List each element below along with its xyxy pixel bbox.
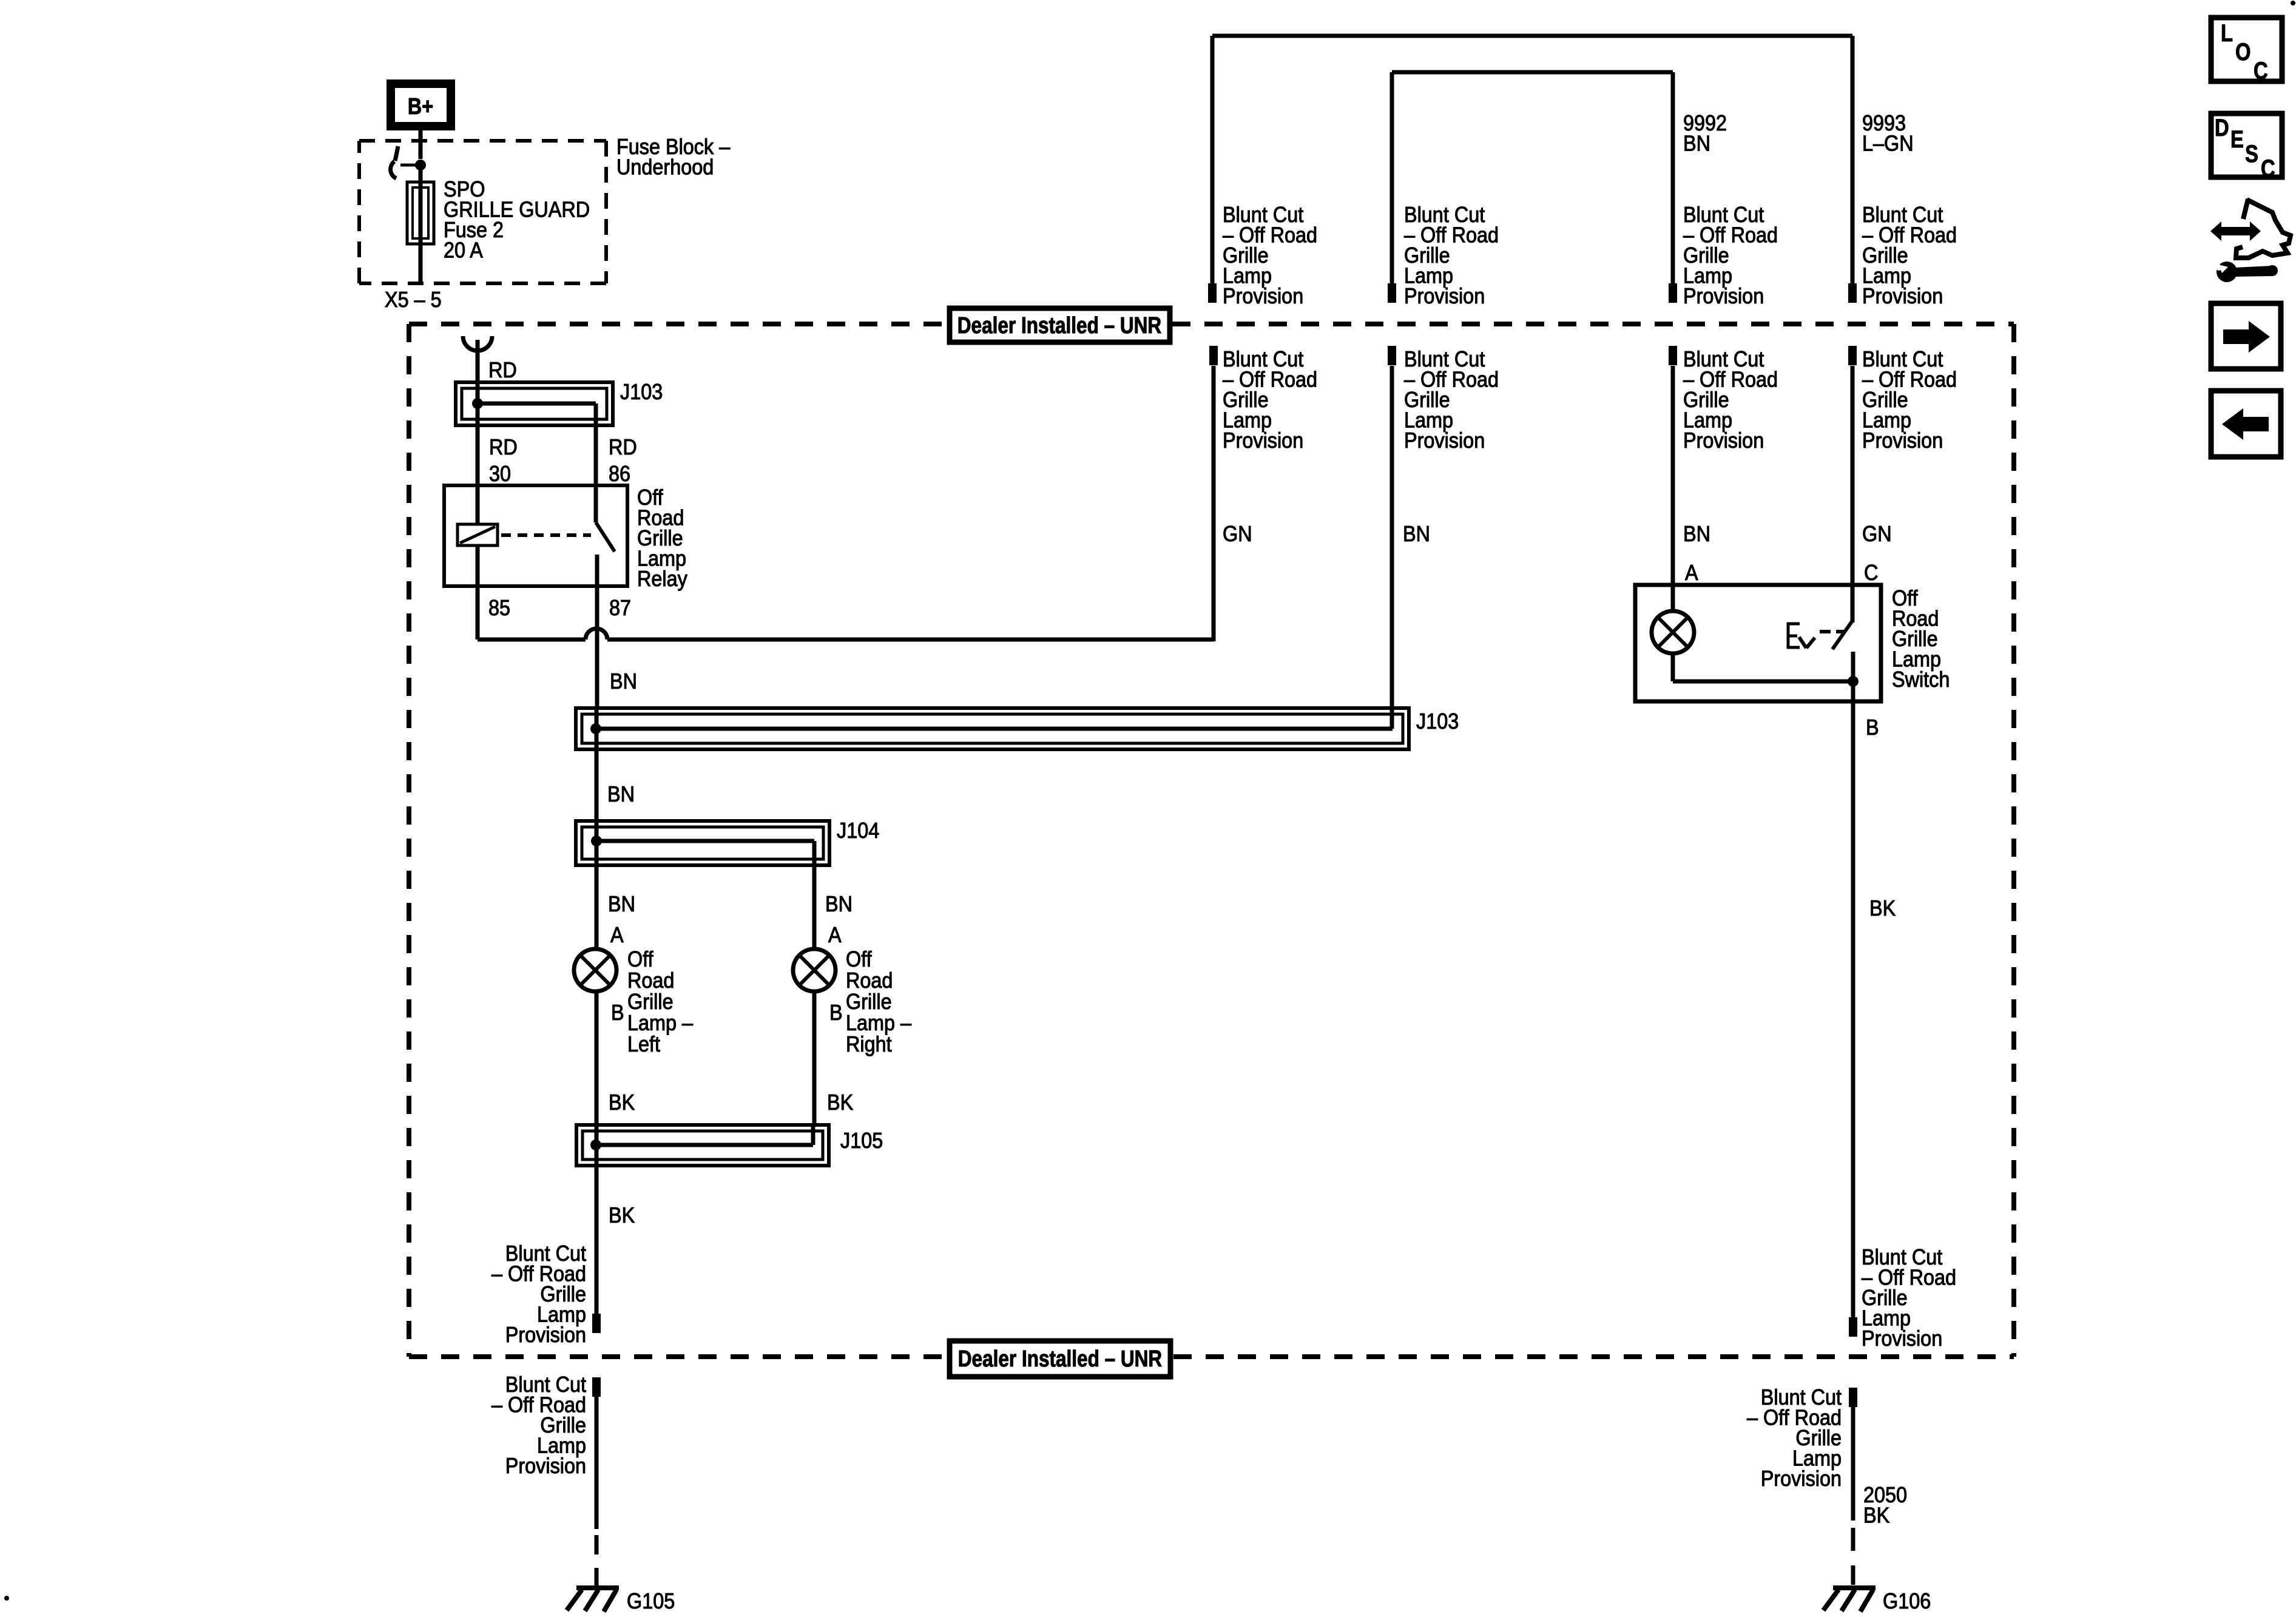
bus wire J104 bbox=[596, 841, 814, 865]
label Fuse Block Underhood bbox=[616, 135, 731, 179]
svg-text:BK: BK bbox=[1863, 1504, 1889, 1528]
label X5 - 5 bbox=[385, 288, 442, 312]
switch actuator arrow bbox=[1799, 637, 1815, 648]
wire J103 through (RD 30) bbox=[476, 382, 480, 487]
wire J103 long through bbox=[595, 708, 599, 749]
svg-text:B: B bbox=[611, 1001, 624, 1025]
label GN col1 bbox=[1223, 522, 1252, 546]
label 9993 L-GN bbox=[1862, 111, 1914, 155]
svg-text:C: C bbox=[2254, 57, 2268, 84]
label B right lamp bbox=[829, 1001, 843, 1025]
svg-text:BN: BN bbox=[825, 892, 853, 916]
wire blunt cut down left bbox=[595, 1396, 599, 1529]
stub blunt cut col1 upper bbox=[1208, 283, 1217, 303]
svg-text:G106: G106 bbox=[1883, 1589, 1931, 1613]
label blunt cut col3 lower bbox=[1683, 347, 1778, 453]
svg-text:GN: GN bbox=[1223, 522, 1252, 546]
label A left lamp bbox=[610, 923, 624, 947]
junction dot J103 long bbox=[590, 723, 601, 734]
stub blunt cut left lower bbox=[592, 1377, 601, 1397]
label B pin bbox=[1866, 715, 1879, 740]
wire through fuse bbox=[419, 182, 423, 244]
ground G106 bbox=[1823, 1588, 1876, 1612]
svg-text:B+: B+ bbox=[408, 94, 433, 120]
switch E symbol bbox=[1787, 623, 1800, 649]
label BN between J103 J104 bbox=[607, 782, 635, 806]
label box Dealer Installed - UNR top bbox=[950, 308, 1170, 342]
wire GN riser to blunt cut bbox=[1212, 366, 1216, 641]
dealer region dashed bottom boundary bbox=[409, 1354, 2014, 1359]
svg-text:A: A bbox=[1685, 561, 1698, 585]
junction dot J103 upper bbox=[472, 398, 483, 409]
wire lamp to switch common bbox=[1673, 652, 1853, 681]
label J104 bbox=[837, 819, 879, 843]
wire col3 to switch bbox=[1671, 366, 1675, 613]
svg-text:Dealer Installed – UNR: Dealer Installed – UNR bbox=[958, 1346, 1162, 1371]
svg-text:Left: Left bbox=[627, 1032, 660, 1056]
svg-text:Road: Road bbox=[846, 968, 893, 993]
svg-text:BK: BK bbox=[1869, 896, 1896, 920]
battery feed B+ terminal bbox=[391, 84, 451, 126]
relay box outline bbox=[444, 485, 627, 586]
ground G105 bbox=[567, 1588, 619, 1612]
svg-text:Dealer Installed – UNR: Dealer Installed – UNR bbox=[957, 312, 1161, 338]
label 85 bbox=[488, 596, 510, 620]
svg-text:J105: J105 bbox=[840, 1129, 883, 1153]
label left lamp name bbox=[627, 947, 694, 1056]
label RD pin86 wire bbox=[609, 435, 637, 459]
switch blade bbox=[1832, 621, 1853, 681]
fuse F2 symbol bbox=[407, 182, 434, 244]
wire J103 to relay pin86 bbox=[594, 425, 598, 487]
label blunt cut col3 upper bbox=[1683, 203, 1778, 308]
wire relay87 down BN bbox=[595, 586, 599, 710]
svg-text:30: 30 bbox=[489, 462, 511, 486]
svg-text:85: 85 bbox=[488, 596, 510, 620]
svg-text:A: A bbox=[610, 923, 624, 947]
label switch name bbox=[1892, 586, 1950, 692]
wire switch to B pin bbox=[1851, 681, 1855, 701]
stub blunt cut col2 lower bbox=[1388, 346, 1396, 365]
svg-text:BN: BN bbox=[607, 782, 635, 806]
label 86 bbox=[609, 462, 630, 486]
svg-text:Provision: Provision bbox=[1223, 284, 1303, 308]
svg-text:BK: BK bbox=[609, 1203, 635, 1227]
svg-text:Underhood: Underhood bbox=[616, 155, 714, 180]
fuse block dashed outline bbox=[359, 141, 606, 283]
label relay name bbox=[637, 485, 688, 591]
label J103 long bbox=[1416, 709, 1459, 734]
svg-text:Provision: Provision bbox=[1862, 284, 1943, 308]
dealer region dashed top boundary bbox=[409, 322, 2014, 326]
wire blunt cut down right bbox=[1851, 1406, 1855, 1521]
switch dashed link bbox=[1820, 630, 1846, 633]
label blunt cut right lower bbox=[1747, 1385, 1842, 1491]
wire BN col2 to J103 bus bbox=[1390, 366, 1394, 729]
relay coil bbox=[458, 524, 498, 545]
fuse block terminal clip bbox=[391, 146, 420, 178]
svg-text:20 A: 20 A bbox=[444, 238, 483, 263]
wire top inner loop bbox=[1392, 72, 1673, 283]
label blunt cut col4 upper bbox=[1862, 203, 1957, 308]
lamp right symbol bbox=[793, 949, 836, 991]
svg-text:Provision: Provision bbox=[1404, 428, 1485, 453]
inline connector half circle bbox=[463, 336, 492, 351]
label BN under relay bbox=[610, 669, 637, 694]
svg-text:Lamp –: Lamp – bbox=[627, 1011, 694, 1035]
wire hop to GN riser bbox=[607, 638, 1214, 642]
wire hop over BN bbox=[586, 629, 607, 640]
icon box arrow left bbox=[2211, 391, 2281, 457]
label 9992 BN bbox=[1683, 111, 1727, 155]
bus wire J103 upper bbox=[478, 403, 596, 425]
svg-text:S: S bbox=[2245, 140, 2258, 167]
junction dot switch B bbox=[1848, 676, 1859, 687]
svg-text:Lamp –: Lamp – bbox=[846, 1011, 912, 1035]
svg-text:Provision: Provision bbox=[1683, 284, 1764, 308]
wire RD connector to J103 bbox=[476, 340, 480, 383]
switch indicator lamp bbox=[1652, 585, 1694, 653]
svg-text:J103: J103 bbox=[1416, 709, 1459, 734]
junction dot J104 bbox=[591, 836, 602, 846]
label A right lamp bbox=[828, 923, 842, 947]
junction dot J105 bbox=[590, 1139, 601, 1150]
label blunt cut col4 lower bbox=[1862, 347, 1957, 453]
svg-text:Provision: Provision bbox=[1862, 1326, 1942, 1351]
svg-text:C: C bbox=[2261, 155, 2275, 182]
svg-text:RD: RD bbox=[488, 358, 517, 382]
svg-text:Grille: Grille bbox=[627, 990, 674, 1014]
label blunt cut right upper bbox=[1862, 1245, 1956, 1351]
wire J105 to blunt cut BK bbox=[595, 1166, 599, 1315]
junction dot at fuse feed bbox=[415, 160, 426, 170]
svg-text:Grille: Grille bbox=[846, 990, 892, 1014]
svg-text:Switch: Switch bbox=[1892, 667, 1950, 692]
stub blunt cut col4 upper bbox=[1848, 283, 1857, 303]
svg-text:L: L bbox=[2221, 19, 2233, 47]
splice pack J104 housing bbox=[576, 821, 829, 865]
svg-text:BN: BN bbox=[610, 669, 637, 694]
svg-text:J104: J104 bbox=[837, 819, 879, 843]
svg-text:C: C bbox=[1864, 561, 1878, 585]
label RD pin30 wire bbox=[489, 435, 518, 459]
icon box LOC bbox=[2211, 18, 2282, 84]
svg-text:BN: BN bbox=[1683, 522, 1710, 546]
svg-text:G105: G105 bbox=[627, 1589, 675, 1613]
bus wire J105 bbox=[596, 1125, 813, 1145]
icon box arrow right bbox=[2211, 303, 2281, 369]
svg-text:Off: Off bbox=[846, 947, 872, 971]
label 2050 BK bbox=[1863, 1483, 1907, 1527]
wire right lamp to J105 bbox=[812, 991, 817, 1125]
wire fuse to X5-5 pin bbox=[419, 244, 423, 282]
relay coil to pin85 wire bbox=[476, 545, 480, 586]
label B left lamp bbox=[611, 1001, 624, 1025]
label A switch bbox=[1685, 561, 1698, 585]
stub blunt cut right upper bbox=[1849, 1317, 1857, 1337]
label blunt cut left upper bbox=[491, 1241, 586, 1347]
svg-text:J103: J103 bbox=[620, 380, 663, 404]
relay coil to blade dashed link bbox=[501, 533, 591, 537]
wire top outer loop bbox=[1212, 36, 1852, 283]
stub blunt cut left upper bbox=[592, 1314, 601, 1333]
svg-text:X5 – 5: X5 – 5 bbox=[385, 288, 442, 312]
label SPO GRILLE GUARD Fuse 2 20 A bbox=[444, 177, 590, 262]
label 30 bbox=[489, 462, 511, 486]
svg-text:Relay: Relay bbox=[637, 567, 688, 591]
wire B down BK bbox=[1851, 701, 1855, 1318]
svg-text:Right: Right bbox=[846, 1032, 892, 1056]
wire dot to fuse bbox=[419, 165, 423, 183]
wire relay85 down bbox=[478, 586, 586, 640]
wire BN to left lamp bbox=[595, 865, 599, 950]
wire dashed to G105 bbox=[595, 1535, 599, 1586]
label BN right lamp bbox=[825, 892, 853, 916]
svg-text:O: O bbox=[2235, 38, 2251, 66]
wire J104 through left bbox=[595, 821, 599, 865]
label blunt cut col2 lower bbox=[1404, 347, 1499, 453]
stub blunt cut right lower bbox=[1849, 1388, 1857, 1407]
splice pack J103 upper housing bbox=[456, 382, 613, 425]
wire J105 through left bbox=[595, 1125, 599, 1166]
svg-text:D: D bbox=[2215, 114, 2229, 141]
label blunt cut col1 upper bbox=[1223, 203, 1317, 308]
icon wiring repair bbox=[2210, 199, 2291, 282]
wire B+ to fuse bbox=[419, 126, 423, 159]
svg-text:Provision: Provision bbox=[1223, 428, 1303, 453]
label BK right run bbox=[1869, 896, 1896, 920]
switch box outline bbox=[1635, 585, 1881, 701]
stub blunt cut col2 upper bbox=[1388, 283, 1396, 303]
svg-text:B: B bbox=[829, 1001, 843, 1025]
label J103 upper bbox=[620, 380, 663, 404]
label blunt cut left lower bbox=[491, 1372, 586, 1478]
wire col4 to switch bbox=[1851, 366, 1855, 623]
stub blunt cut col3 lower bbox=[1669, 346, 1677, 365]
label box Dealer Installed - UNR bottom bbox=[950, 1341, 1170, 1377]
label 87 bbox=[609, 596, 631, 620]
label RD bbox=[488, 358, 517, 382]
page artifact dot bottom left bbox=[4, 1596, 9, 1601]
svg-text:BN: BN bbox=[1403, 522, 1430, 546]
svg-text:86: 86 bbox=[609, 462, 630, 486]
svg-text:BN: BN bbox=[608, 892, 635, 916]
label BK bottom left bbox=[609, 1203, 635, 1227]
label G105 bbox=[627, 1589, 675, 1613]
svg-text:RD: RD bbox=[489, 435, 518, 459]
svg-text:Provision: Provision bbox=[1683, 428, 1764, 453]
lamp left symbol bbox=[574, 949, 616, 991]
svg-text:B: B bbox=[1866, 715, 1879, 740]
label J105 bbox=[840, 1129, 883, 1153]
wire BN to J104 bbox=[595, 749, 599, 821]
svg-text:BK: BK bbox=[609, 1090, 635, 1115]
stub blunt cut col4 lower bbox=[1848, 346, 1857, 365]
dealer region dashed left boundary bbox=[407, 324, 411, 1357]
svg-text:E: E bbox=[2230, 126, 2244, 153]
label right lamp name bbox=[846, 947, 912, 1056]
bus wire J103 long bbox=[596, 727, 1393, 731]
stub blunt cut col1 lower bbox=[1209, 346, 1218, 365]
svg-text:Provision: Provision bbox=[1761, 1467, 1842, 1491]
svg-text:BN: BN bbox=[1683, 132, 1710, 156]
svg-text:GN: GN bbox=[1862, 522, 1892, 546]
svg-text:Provision: Provision bbox=[1404, 284, 1485, 308]
svg-text:L–GN: L–GN bbox=[1862, 132, 1914, 156]
label BN col3 bbox=[1683, 522, 1710, 546]
label BN left lamp bbox=[608, 892, 635, 916]
label GN col4 bbox=[1862, 522, 1892, 546]
svg-text:Off: Off bbox=[627, 947, 653, 971]
wire left lamp to J105 bbox=[595, 991, 599, 1125]
page artifact dot top right bbox=[2291, 1, 2295, 5]
svg-text:RD: RD bbox=[609, 435, 637, 459]
svg-text:Road: Road bbox=[627, 968, 674, 993]
label BK right bbox=[827, 1090, 853, 1115]
svg-text:BK: BK bbox=[827, 1090, 853, 1115]
label BN col2 bbox=[1403, 522, 1430, 546]
stub blunt cut col3 upper bbox=[1669, 283, 1677, 303]
icon box DESC bbox=[2211, 113, 2282, 182]
label G106 bbox=[1883, 1589, 1931, 1613]
svg-text:87: 87 bbox=[609, 596, 631, 620]
relay coil feed wire bbox=[476, 485, 480, 525]
svg-text:A: A bbox=[828, 923, 842, 947]
label BK left bbox=[609, 1090, 635, 1115]
splice pack J103 long housing bbox=[576, 708, 1409, 749]
label C switch bbox=[1864, 561, 1878, 585]
splice pack J105 housing bbox=[576, 1125, 829, 1166]
dealer region dashed right boundary bbox=[2011, 324, 2016, 1357]
relay blade contact bbox=[596, 485, 615, 586]
svg-text:Provision: Provision bbox=[505, 1323, 586, 1347]
svg-text:Provision: Provision bbox=[1862, 428, 1943, 453]
label blunt cut col1 lower bbox=[1223, 347, 1317, 453]
wire dashed to G106 bbox=[1851, 1528, 1855, 1585]
svg-text:Provision: Provision bbox=[505, 1454, 586, 1478]
label blunt cut col2 upper bbox=[1404, 203, 1499, 308]
wire BN to right lamp bbox=[812, 865, 817, 950]
